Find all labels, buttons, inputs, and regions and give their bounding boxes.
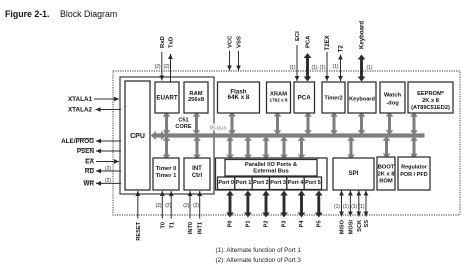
port pins P0: [226, 191, 234, 218]
wire VCC: [227, 51, 232, 71]
svg-text:External Bus: External Bus: [253, 169, 288, 175]
bus link PIO 1: [226, 136, 234, 159]
svg-text:(1): (1): [351, 204, 357, 210]
core group box: [120, 77, 214, 194]
svg-text:CPU: CPU: [130, 133, 145, 140]
block Timer2: [322, 82, 345, 113]
block Parallel I/O container: [216, 158, 328, 190]
svg-text:(1): (1): [366, 65, 372, 71]
block Keyboard: [348, 82, 376, 113]
svg-text:SS: SS: [364, 220, 370, 228]
wire INT0: [188, 191, 193, 219]
svg-text:POR / PFD: POR / PFD: [400, 172, 428, 178]
bus link Timer2: [330, 112, 338, 135]
svg-text:1792 x 8: 1792 x 8: [270, 98, 288, 103]
svg-text:256x8: 256x8: [188, 97, 205, 103]
wire MISO: [339, 191, 344, 217]
wire RD: [96, 169, 121, 174]
svg-text:(2): (2): [193, 203, 199, 209]
block RAM 256x8: [184, 82, 208, 113]
wire TxD: [168, 54, 173, 82]
wire XTALA2: [96, 107, 122, 112]
block Timer 0 / Timer 1: [153, 158, 179, 190]
svg-text:C51: C51: [178, 117, 188, 123]
wire PCA (port): [304, 53, 312, 82]
block Port 5: [304, 177, 321, 190]
bus link XRAM: [274, 112, 282, 135]
svg-text:Timer 0: Timer 0: [156, 166, 178, 172]
svg-text:Port 3: Port 3: [270, 180, 286, 186]
svg-text:P5: P5: [316, 221, 322, 228]
wire T2: [338, 55, 343, 82]
svg-text:(1): (1): [319, 65, 325, 71]
svg-text:T0: T0: [160, 222, 166, 229]
block INT Ctrl: [184, 158, 210, 190]
wire T0: [160, 191, 165, 219]
svg-text:(1): (1): [311, 65, 317, 71]
svg-text:PSEN: PSEN: [77, 148, 95, 155]
svg-text:(2): (2): [163, 64, 169, 70]
svg-text:EA: EA: [85, 159, 94, 166]
bus link Regulator: [410, 136, 418, 158]
svg-text:(2): (2): [105, 166, 111, 172]
svg-text:Figure 2-1.: Figure 2-1.: [5, 9, 49, 19]
svg-text:XRAM: XRAM: [270, 91, 287, 97]
block Port 0: [218, 177, 235, 190]
svg-text:(2): (2): [183, 203, 189, 209]
svg-text:Port 0: Port 0: [218, 180, 234, 186]
svg-text:Keyboard: Keyboard: [349, 96, 375, 102]
bus link INT Ctrl: [193, 136, 201, 159]
block Port 3: [270, 177, 287, 190]
svg-text:Ctrl: Ctrl: [192, 173, 203, 179]
wire EA: [96, 159, 119, 164]
IB-bus label: [209, 124, 228, 131]
svg-text:Timer 1: Timer 1: [156, 173, 178, 179]
bus link PCA: [304, 112, 312, 135]
svg-text:WR: WR: [84, 181, 95, 188]
wire ECI: [295, 45, 300, 81]
svg-text:XTALA2: XTALA2: [68, 107, 93, 114]
svg-text:PCA: PCA: [298, 95, 312, 102]
wire PSEN: [96, 149, 121, 154]
svg-text:(2): (2): [155, 203, 161, 209]
wire T1: [169, 191, 174, 219]
svg-text:INT1: INT1: [198, 222, 204, 234]
port pins P4: [298, 191, 306, 218]
svg-text:(1): (1): [358, 204, 364, 210]
wire SCK: [356, 191, 361, 217]
bus link PIO 5: [298, 136, 306, 159]
svg-text:Parallel I/O Ports &: Parallel I/O Ports &: [245, 162, 297, 168]
svg-text:Port 5: Port 5: [305, 180, 321, 186]
svg-text:P0: P0: [227, 221, 233, 228]
svg-text:VSS: VSS: [237, 36, 243, 48]
block Port 4: [287, 177, 304, 190]
wire INT1: [197, 191, 202, 219]
block Watchdog: [380, 82, 405, 113]
svg-text:ECI: ECI: [295, 31, 301, 41]
bus link Flash: [228, 112, 236, 135]
svg-text:ALE/PROG: ALE/PROG: [61, 138, 94, 145]
svg-text:(1): (1): [334, 204, 340, 210]
svg-text:Watch: Watch: [384, 92, 402, 98]
svg-text:IB-bus: IB-bus: [210, 125, 227, 131]
svg-text:(2): (2): [154, 64, 160, 70]
block Parallel I/O Ports & External Bus: [225, 160, 317, 177]
svg-text:Timer2: Timer2: [324, 95, 342, 101]
bus link SPI: [347, 136, 355, 159]
svg-text:EEPROM*: EEPROM*: [417, 91, 445, 97]
wire RESET: [135, 191, 140, 219]
svg-text:INT0: INT0: [188, 222, 194, 234]
wire WR: [96, 181, 121, 186]
block Port 1: [235, 177, 252, 190]
chip boundary (dotted): [113, 71, 460, 215]
bus link PIO 2: [244, 136, 252, 159]
svg-text:(2): Alternate function of Por: (2): Alternate function of Port 3: [216, 257, 302, 264]
svg-text:2K x 8: 2K x 8: [377, 172, 395, 178]
wire SS: [364, 191, 369, 217]
svg-text:Regulator: Regulator: [401, 164, 428, 170]
svg-text:(1): (1): [289, 65, 295, 71]
bus link Timer 0/1: [163, 136, 171, 159]
svg-text:-dog: -dog: [386, 101, 399, 107]
svg-text:P2: P2: [263, 221, 269, 228]
svg-text:(AT89C51ED2): (AT89C51ED2): [411, 105, 450, 111]
block Flash 64K: [218, 82, 260, 113]
block EUART: [155, 82, 179, 113]
svg-text:P1: P1: [245, 221, 251, 228]
svg-text:MISO: MISO: [339, 219, 345, 234]
svg-text:TxD: TxD: [169, 37, 175, 48]
bus link Keyboard: [358, 112, 366, 135]
svg-text:MOSI: MOSI: [348, 220, 354, 235]
svg-text:(2): (2): [165, 203, 171, 209]
svg-text:64K x 8: 64K x 8: [228, 94, 250, 101]
svg-text:T2EX: T2EX: [324, 34, 331, 50]
wire MOSI: [348, 191, 353, 217]
IB-bus main bus: [156, 133, 425, 137]
wire RxD: [159, 52, 164, 81]
port pins P5: [315, 191, 323, 218]
svg-text:BOOT: BOOT: [378, 165, 395, 171]
bus link PIO 3: [262, 136, 270, 159]
svg-text:T2: T2: [338, 45, 345, 53]
svg-text:RD: RD: [85, 168, 95, 175]
svg-text:Port 2: Port 2: [253, 180, 269, 186]
block EEPROM: [408, 82, 453, 113]
bus link PIO 4: [280, 136, 288, 159]
svg-text:(1): Alternate function of Por: (1): Alternate function of Port 1: [216, 247, 302, 254]
svg-text:ROM: ROM: [379, 179, 393, 185]
block BOOT ROM: [377, 157, 395, 190]
wire T2EX: [325, 52, 330, 81]
svg-text:T1: T1: [169, 222, 175, 229]
svg-text:Block Diagram: Block Diagram: [60, 9, 117, 19]
CPU to IB-bus link: [151, 131, 166, 140]
svg-text:EUART: EUART: [156, 94, 178, 101]
port pins P2: [262, 191, 270, 218]
svg-text:SCK: SCK: [357, 220, 363, 232]
svg-text:Port 1: Port 1: [236, 180, 252, 186]
svg-text:PCA: PCA: [306, 35, 312, 48]
svg-text:Keyboard: Keyboard: [359, 21, 366, 49]
bus link EUART: [163, 112, 171, 135]
svg-text:(1): (1): [343, 204, 349, 210]
port pins P3: [280, 191, 288, 218]
bus link Watchdog: [386, 112, 394, 135]
block PCA: [294, 82, 315, 113]
svg-text:VCC: VCC: [228, 35, 234, 48]
svg-text:(1): (1): [332, 64, 338, 70]
bus link BOOT ROM: [383, 136, 391, 158]
svg-text:CORE: CORE: [175, 124, 191, 130]
wire Keyboard (port): [358, 55, 366, 82]
wire XTALA1: [94, 97, 119, 102]
bus link EEPROM: [410, 112, 418, 135]
port pins P1: [244, 191, 252, 218]
block Regulator POR/PFD: [398, 157, 430, 190]
svg-text:RESET: RESET: [136, 221, 142, 240]
block Port 2: [252, 177, 269, 190]
svg-text:RxD: RxD: [160, 36, 166, 48]
wire VSS: [236, 51, 241, 71]
svg-text:P3: P3: [281, 221, 287, 228]
wire ALE/PROG: [96, 139, 121, 144]
svg-text:XTALA1: XTALA1: [68, 96, 93, 103]
block SPI: [333, 158, 374, 190]
svg-text:2K x 8: 2K x 8: [422, 98, 439, 104]
block XRAM: [267, 82, 291, 113]
svg-text:P4: P4: [299, 220, 305, 228]
svg-text:(2): (2): [105, 178, 111, 184]
bus link RAM: [193, 112, 201, 135]
svg-text:Port 4: Port 4: [288, 180, 305, 186]
block CPU: [125, 81, 150, 190]
svg-text:SPI: SPI: [349, 170, 359, 177]
svg-text:INT: INT: [192, 166, 202, 172]
